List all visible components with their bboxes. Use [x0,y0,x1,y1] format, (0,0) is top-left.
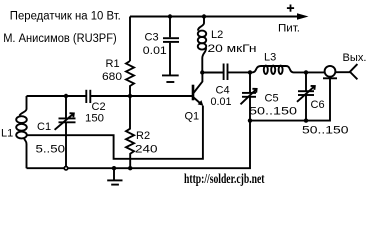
svg-text:L2: L2 [211,29,223,41]
wire C5/C6 bottom sub-rail [250,79,330,121]
resistor R1 [126,61,134,96]
inductor L2 [198,17,206,73]
wire to antenna [336,71,350,73]
wire L3 to connector [294,71,325,73]
svg-text:Передатчик на 10 Вт.: Передатчик на 10 Вт. [10,11,121,23]
svg-text:C4: C4 [216,84,230,96]
connector (output socket) [323,66,337,78]
svg-text:150: 150 [85,113,104,125]
svg-text:50..150: 50..150 [302,125,349,137]
svg-text:C1: C1 [37,121,51,133]
svg-text:R1: R1 [106,58,120,70]
node C1 bottom (donut) [63,166,68,171]
svg-text:http://solder.cjb.net: http://solder.cjb.net [184,172,265,187]
svg-text:Пит.: Пит. [278,23,300,35]
node dot L2 top [202,14,206,18]
wire C4 to L3 [228,71,252,73]
wire base rail right [91,95,192,97]
wire base rail left [27,95,86,97]
svg-text:5..50: 5..50 [36,144,66,156]
ground bottom [107,168,122,184]
node dot C3 top [168,14,172,18]
inductor L3 [252,66,294,74]
capacitor C5 (variable) [241,72,257,104]
ground below C3 [162,75,179,82]
node dot C5 bottom [248,118,252,122]
svg-text:680: 680 [102,71,122,83]
capacitor C2 [86,90,90,103]
node dot ground rail [112,166,116,170]
svg-text:C5: C5 [265,93,279,105]
antenna fork [350,64,358,79]
svg-text:C2: C2 [92,101,106,113]
svg-text:Вых.: Вых. [343,52,367,64]
inductor L1 [16,96,27,168]
wire L1 tap to emitter [27,106,203,159]
capacitor C4 [224,64,228,81]
svg-text:М. Анисимов (RU3PF): М. Анисимов (RU3PF) [3,33,117,45]
capacitor C6 (variable) [297,72,315,120]
node dot collector [200,70,204,74]
node dot C1 top [64,94,68,98]
svg-text:Q1: Q1 [185,111,200,123]
svg-text:R2: R2 [136,130,150,142]
node dot C5 top [248,70,252,74]
wire power feed [204,16,298,18]
svg-text:50..150: 50..150 [249,106,297,118]
svg-text:C3: C3 [145,32,159,44]
wire R1 top lead [129,17,131,62]
svg-text:C6: C6 [311,99,325,111]
arrowhead emitter [198,100,204,106]
arrowhead power [297,13,309,20]
svg-text:0.01: 0.01 [211,96,232,108]
node dot C6 top [304,70,308,74]
plus sign [287,5,294,12]
capacitor C3 [163,17,179,75]
svg-text:L3: L3 [264,52,276,64]
svg-text:20 мкГн: 20 мкГн [208,43,257,55]
svg-text:240: 240 [135,144,158,156]
node dot base divider [128,94,132,98]
capacitor C1 (variable) [55,96,76,167]
wire top rail [130,16,298,18]
node dot R2 bottom [128,166,132,170]
svg-text:0.01: 0.01 [143,45,167,57]
wire bottom rail [27,97,251,168]
resistor R2 [126,96,134,168]
node dot C6 bottom [304,118,308,122]
wire collector to C4 [202,72,223,74]
svg-text:L1: L1 [1,128,13,140]
transistor Q1 [193,73,202,105]
